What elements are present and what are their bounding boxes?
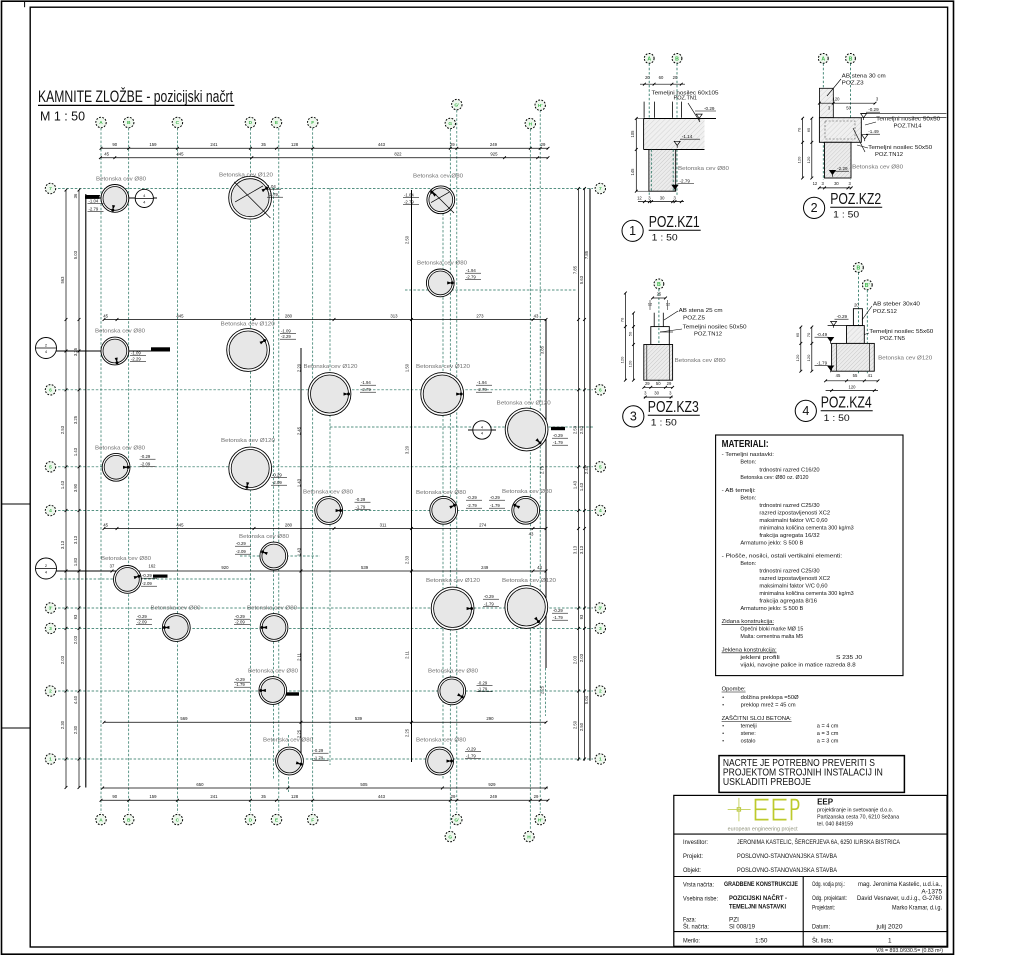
KZ3 title	[623, 399, 700, 429]
KZ4 axis bubble top	[854, 263, 864, 273]
svg-text:929: 929	[488, 782, 496, 787]
svg-text:A: A	[821, 56, 825, 62]
svg-text:7: 7	[599, 186, 602, 192]
svg-text:-2.09: -2.09	[141, 462, 151, 467]
svg-text:3: 3	[49, 626, 52, 632]
KZ4 axis dashed lines	[857, 273, 859, 374]
nosilec bar x157	[153, 575, 168, 578]
title block outer	[674, 795, 947, 946]
foundation wall left vertical	[85, 194, 87, 788]
svg-text:-1.79: -1.79	[553, 440, 563, 445]
svg-text:A: A	[647, 56, 651, 62]
svg-text:B: B	[127, 817, 131, 823]
svg-text:445: 445	[176, 152, 184, 157]
svg-text:ostalo: ostalo	[741, 739, 756, 745]
svg-text:249: 249	[490, 142, 498, 147]
svg-text:POZ.TN5: POZ.TN5	[880, 336, 905, 342]
svg-text:60: 60	[659, 75, 664, 80]
svg-text:Betonska cev Ø120: Betonska cev Ø120	[502, 578, 556, 584]
pipe E3 fi80	[234, 606, 297, 642]
svg-text:•: •	[722, 739, 724, 745]
KZ4 axis bubble B-prime	[862, 280, 872, 290]
KZ4 nosilec hatched	[847, 326, 865, 344]
svg-text:Št. lista:: Št. lista:	[812, 938, 833, 945]
svg-text:128: 128	[291, 794, 299, 799]
svg-text:2.30: 2.30	[73, 725, 78, 734]
svg-text:Betonska cev Ø80: Betonska cev Ø80	[678, 166, 729, 172]
svg-text:F: F	[311, 817, 314, 823]
svg-text:Betonska cev Ø80: Betonska cev Ø80	[96, 177, 146, 183]
KZ4 title	[795, 395, 873, 425]
svg-text:1 : 50: 1 : 50	[824, 413, 850, 424]
svg-text:2.53: 2.53	[573, 425, 578, 434]
svg-text:trdnostni razred C25/30: trdnostni razred C25/30	[759, 503, 819, 509]
KZ4 elevation -0.29	[831, 321, 837, 327]
svg-text:37: 37	[110, 564, 115, 569]
svg-text:Projektant:: Projektant:	[812, 905, 835, 912]
svg-text:Betonska cev Ø80: Betonska cev Ø80	[428, 669, 478, 675]
KZ3 wall stub	[653, 313, 655, 327]
svg-text:2.20: 2.20	[297, 363, 302, 372]
svg-text:-0.29: -0.29	[553, 433, 563, 438]
svg-text:3.25: 3.25	[73, 415, 78, 424]
svg-text:H: H	[529, 121, 533, 127]
svg-text:12: 12	[648, 302, 653, 307]
svg-text:1.50: 1.50	[405, 363, 410, 372]
svg-text:920: 920	[221, 565, 229, 570]
svg-text:-1.09: -1.09	[281, 329, 291, 334]
svg-text:-1.79: -1.79	[490, 503, 500, 508]
svg-text:159: 159	[149, 794, 157, 799]
svg-text:5.63: 5.63	[579, 275, 584, 284]
svg-text:650: 650	[196, 782, 204, 787]
KZ1 bottom dimension	[638, 201, 684, 203]
svg-text:-0.29: -0.29	[356, 497, 366, 502]
svg-text:505: 505	[360, 782, 368, 787]
svg-text:445: 445	[176, 522, 184, 527]
materiali box	[716, 435, 903, 676]
svg-text:Opečni bloki marke MØ 15: Opečni bloki marke MØ 15	[740, 627, 803, 633]
svg-text:1 : 50: 1 : 50	[651, 418, 677, 429]
pipe E2 fi80	[234, 669, 298, 705]
svg-text:90: 90	[112, 142, 117, 147]
svg-text:2.03: 2.03	[579, 653, 584, 662]
svg-text:-1.04: -1.04	[404, 193, 414, 198]
svg-text:-0.29: -0.29	[704, 106, 715, 111]
svg-text:-2.79: -2.79	[89, 207, 99, 212]
svg-text:35: 35	[261, 794, 266, 799]
top dimension row 2	[100, 157, 548, 159]
right dimension chain outer	[578, 189, 580, 761]
svg-text:-2.79: -2.79	[361, 387, 371, 392]
pipe D7 fi120	[219, 173, 283, 220]
svg-text:B: B	[657, 282, 661, 288]
svg-text:Betonska cev Ø80: Betonska cev Ø80	[95, 446, 145, 452]
KZ2 left dimension chains	[802, 118, 804, 178]
svg-text:Odg. projektant:: Odg. projektant:	[812, 895, 847, 902]
materiali content	[722, 452, 862, 669]
svg-text:1.43: 1.43	[579, 482, 584, 491]
svg-text:93: 93	[73, 614, 78, 619]
svg-text:a = 3 cm: a = 3 cm	[817, 739, 839, 745]
svg-text:50: 50	[628, 331, 633, 336]
svg-text:925: 925	[490, 152, 498, 157]
svg-text:3: 3	[599, 626, 602, 632]
svg-text:280: 280	[285, 522, 293, 527]
svg-text:PZI: PZI	[729, 917, 739, 924]
svg-text:trdnostni razred C16/20: trdnostni razred C16/20	[759, 468, 819, 474]
svg-text:F: F	[311, 120, 314, 126]
EEP company address	[817, 808, 899, 828]
svg-text:-2.79: -2.79	[680, 178, 691, 183]
svg-text:443: 443	[378, 142, 386, 147]
svg-text:20: 20	[854, 303, 859, 308]
svg-text:3.13: 3.13	[60, 540, 65, 549]
mid dimension row y722	[104, 721, 546, 723]
svg-text:C: C	[176, 817, 180, 823]
svg-text:12: 12	[637, 196, 642, 201]
svg-text:1.83: 1.83	[73, 557, 78, 566]
svg-text:1 : 50: 1 : 50	[833, 210, 859, 221]
svg-text:AB stena 30 cm: AB stena 30 cm	[842, 74, 887, 80]
svg-text:3.25: 3.25	[73, 347, 78, 356]
svg-text:B: B	[857, 265, 861, 271]
svg-text:-2.29: -2.29	[837, 166, 848, 171]
svg-text:2.03: 2.03	[60, 655, 65, 664]
svg-text:70: 70	[619, 317, 624, 322]
right dimension chain inner	[584, 189, 586, 761]
svg-text:razred izpostavljenosti XC2: razred izpostavljenosti XC2	[759, 511, 830, 517]
svg-text:-1.94: -1.94	[361, 380, 371, 385]
svg-text:B: B	[127, 120, 131, 126]
svg-text:-0.29: -0.29	[466, 747, 476, 752]
svg-text:274: 274	[479, 522, 487, 527]
svg-text:Projekt:: Projekt:	[683, 853, 703, 860]
foundation wall right vertical	[589, 189, 591, 761]
svg-text:1.43: 1.43	[297, 547, 302, 556]
svg-text:G': G'	[454, 102, 459, 108]
svg-text:POSLOVNO-STANOVANJSKA STAVBA: POSLOVNO-STANOVANJSKA STAVBA	[737, 853, 838, 860]
nosilec bar row7	[85, 195, 100, 199]
svg-text:Marko Kramar, d.i.g.: Marko Kramar, d.i.g.	[892, 905, 942, 912]
pipe F7 fi80	[403, 174, 463, 214]
svg-text:Objekt:: Objekt:	[683, 867, 701, 874]
plan vertical grid line H-prime	[539, 110, 541, 813]
svg-text:-0.29: -0.29	[137, 614, 147, 619]
foundation wall vertical x546	[545, 320, 547, 669]
svg-text:313: 313	[390, 313, 398, 318]
svg-text:G: G	[448, 121, 452, 127]
zascitni sloj betona block	[722, 715, 839, 745]
title block row dividers	[674, 833, 947, 835]
svg-text:-1.79: -1.79	[817, 361, 828, 366]
svg-text:H: H	[527, 834, 531, 840]
svg-text:2.30: 2.30	[60, 720, 65, 729]
plan vertical helper grid lines	[274, 188, 444, 780]
pipe F6 fi120	[304, 364, 377, 415]
svg-text:D: D	[249, 120, 253, 126]
detail POZ.KZ2	[797, 54, 947, 221]
svg-text:Betonska cev Ø80: Betonska cev Ø80	[303, 490, 353, 496]
svg-text:-1.09: -1.09	[131, 351, 141, 356]
KZ3 bottom dims	[644, 386, 673, 388]
section mark near circle H mid	[468, 421, 496, 439]
interior vertical dimension numbers x590	[584, 250, 589, 704]
svg-text:120: 120	[795, 354, 800, 361]
svg-text:241: 241	[210, 142, 218, 147]
svg-text:3.13: 3.13	[573, 545, 578, 554]
svg-text:-1.94: -1.94	[477, 380, 487, 385]
KZ2 slab hatched	[819, 118, 861, 143]
svg-text:2.53: 2.53	[579, 425, 584, 434]
svg-text:- AB temelji:: - AB temelji:	[722, 488, 757, 494]
pipe E556 fi80	[235, 534, 289, 570]
svg-text:USKLADITI PREBOJE: USKLADITI PREBOJE	[723, 777, 811, 788]
svg-text:-1.94: -1.94	[466, 268, 476, 273]
svg-text:35: 35	[261, 142, 266, 147]
plan horizontal grid lines	[58, 189, 593, 760]
svg-text:2.03: 2.03	[573, 655, 578, 664]
KZ2 top surface leader lines	[861, 113, 946, 115]
svg-text:2.11: 2.11	[297, 652, 302, 661]
svg-text:Betonska cev Ø80: Betonska cev Ø80	[413, 174, 463, 180]
svg-text:7: 7	[49, 186, 52, 192]
svg-text:POZ.KZ3: POZ.KZ3	[648, 399, 699, 416]
svg-text:280: 280	[285, 313, 293, 318]
svg-text:D: D	[249, 817, 253, 823]
svg-text:3: 3	[630, 410, 637, 424]
KZ2 title	[804, 191, 883, 221]
svg-text:3.20: 3.20	[405, 445, 410, 454]
svg-text:45: 45	[103, 522, 108, 527]
svg-text:-0.29: -0.29	[478, 681, 488, 686]
svg-text:julij 2020: julij 2020	[875, 924, 902, 931]
svg-text:vijaki, navojne palice in mati: vijaki, navojne palice in matice razreda…	[740, 663, 855, 669]
svg-text:7.85: 7.85	[584, 250, 589, 259]
svg-text:Beton:: Beton:	[740, 496, 756, 502]
svg-text:-0.29: -0.29	[484, 594, 494, 599]
svg-text:Temeljni nosilec 50x50: Temeljni nosilec 50x50	[683, 325, 747, 331]
KZ1 axis bubble A	[644, 54, 654, 64]
svg-text:-2.09: -2.09	[236, 549, 246, 554]
svg-text:-1.49: -1.49	[868, 129, 879, 134]
svg-text:2.75: 2.75	[540, 465, 545, 474]
svg-text:2.50: 2.50	[579, 722, 584, 731]
svg-text:30: 30	[660, 196, 665, 201]
svg-text:A: A	[99, 120, 103, 126]
pipe G290 fi80	[417, 261, 481, 297]
plan horizontal helper grid lines	[60, 290, 593, 792]
svg-text:Vrsta načrta:: Vrsta načrta:	[683, 882, 714, 889]
nosilec bar row mid right	[551, 427, 565, 430]
left chain dimension numbers	[60, 193, 78, 734]
svg-text:36: 36	[73, 193, 78, 198]
svg-text:1:50: 1:50	[755, 938, 768, 945]
pipe Dsec fi120	[221, 322, 296, 372]
plan vertical grid line H	[529, 129, 531, 830]
svg-text:Malta: cementna malta M5: Malta: cementna malta M5	[740, 634, 803, 640]
svg-text:minimalna količina cementa 300: minimalna količina cementa 300 kg/m3	[759, 591, 853, 597]
KZ1 top dimension	[640, 83, 685, 85]
svg-text:29: 29	[450, 142, 455, 147]
pipe F4 fi80	[303, 490, 371, 525]
svg-text:Betonska cev Ø120: Betonska cev Ø120	[878, 356, 932, 362]
KZ2 elevation -1.49	[862, 135, 868, 141]
svg-text:12: 12	[813, 181, 818, 186]
svg-text:241: 241	[210, 794, 218, 799]
svg-text:Betonska cev Ø120: Betonska cev Ø120	[221, 322, 275, 328]
svg-text:70: 70	[797, 127, 802, 132]
svg-text:Vsebina risbe:: Vsebina risbe:	[683, 896, 718, 903]
svg-text:Betonska cev Ø80: Betonska cev Ø80	[151, 606, 201, 612]
svg-text:5: 5	[599, 465, 602, 471]
pipe E1 fi80	[263, 738, 329, 775]
svg-text:-0.29: -0.29	[142, 573, 152, 578]
svg-text:3.85: 3.85	[540, 345, 545, 354]
KZ4 pipe fi120	[832, 343, 875, 371]
svg-text:-2.09: -2.09	[272, 480, 282, 485]
svg-text:43: 43	[534, 313, 539, 318]
pipe D5 fi120	[221, 438, 287, 490]
svg-text:SI 008/19: SI 008/19	[729, 924, 755, 931]
svg-text:3.90: 3.90	[73, 483, 78, 492]
svg-text:H': H'	[538, 103, 543, 109]
KZ3 left dimension chains	[624, 293, 626, 380]
svg-text:2.33: 2.33	[405, 555, 410, 564]
svg-text:Betonska cev Ø80: Betonska cev Ø80	[502, 489, 552, 495]
svg-text:-2.79: -2.79	[466, 275, 476, 280]
svg-text:mag. Jeronima Kastelic, u.d.i.: mag. Jeronima Kastelic, u.d.i.a.,	[858, 881, 942, 888]
svg-text:Betonska cev Ø80: Betonska cev Ø80	[675, 358, 726, 364]
svg-text:preklop mrež = 45 cm: preklop mrež = 45 cm	[741, 703, 796, 709]
svg-text:159: 159	[149, 142, 157, 147]
svg-text:43: 43	[529, 532, 534, 537]
svg-text:2.45: 2.45	[297, 426, 302, 435]
svg-text:120: 120	[849, 384, 857, 389]
KZ3 axis dashed line	[658, 289, 660, 381]
svg-text:Beton:: Beton:	[740, 561, 756, 567]
svg-text:Betonska cev Ø80: Betonska cev Ø80	[417, 261, 467, 267]
svg-text:7.85: 7.85	[573, 265, 578, 274]
svg-text:50: 50	[846, 106, 851, 111]
right chain dimension numbers	[573, 265, 585, 731]
axis bubbles left	[45, 183, 55, 764]
title block merilo row	[683, 938, 892, 945]
svg-text:162: 162	[149, 564, 157, 569]
svg-text:-0.29: -0.29	[235, 614, 245, 619]
svg-text:POZICIJSKI NAČRT -: POZICIJSKI NAČRT -	[729, 893, 787, 902]
pipe B5 fi80	[95, 446, 156, 482]
fold mark left lower	[2, 727, 31, 729]
KZ3 axis bubble B	[654, 279, 664, 289]
KZ1 elevation -0.29	[696, 114, 702, 120]
svg-text:2: 2	[811, 201, 818, 215]
svg-text:443: 443	[378, 794, 386, 799]
opombe block	[722, 687, 800, 709]
svg-text:-0.29: -0.29	[314, 748, 324, 753]
svg-text:5.04: 5.04	[584, 695, 589, 704]
pipe B579 fi80	[101, 556, 157, 593]
svg-text:a = 4 cm: a = 4 cm	[817, 724, 839, 730]
KZ2 wall above	[819, 88, 833, 117]
KZ1 pipe below slab	[649, 150, 676, 192]
svg-text:-1.79: -1.79	[235, 682, 245, 687]
svg-text:Betonska cev: Ø80 oz. Ø120: Betonska cev: Ø80 oz. Ø120	[740, 475, 808, 481]
svg-text:1: 1	[49, 757, 52, 763]
pipe G4 fi80	[416, 490, 482, 524]
svg-text:JERONIMA KASTELIC, ŠERCERJEVA: JERONIMA KASTELIC, ŠERCERJEVA 6A, 6250 I…	[737, 837, 900, 846]
svg-text:45: 45	[104, 152, 109, 157]
pipe Bsec fi80	[95, 329, 146, 365]
svg-text:120: 120	[628, 360, 633, 367]
KZ2 elevation -0.29	[861, 114, 867, 120]
svg-text:822: 822	[394, 152, 402, 157]
section mark row7 right of B	[86, 189, 157, 207]
svg-text:Datum:: Datum:	[812, 924, 830, 931]
svg-text:temelji: temelji	[741, 724, 757, 730]
svg-text:-2.79: -2.79	[477, 387, 487, 392]
svg-text:stene:: stene:	[741, 731, 757, 737]
svg-text:minimalna količina cementa 300: minimalna količina cementa 300 kg/m3	[759, 526, 853, 532]
detail POZ.KZ4	[795, 263, 934, 424]
svg-text:539: 539	[355, 716, 363, 721]
KZ2 dim 120	[819, 102, 875, 104]
svg-text:Temeljni nosilec 55x60: Temeljni nosilec 55x60	[869, 329, 933, 335]
svg-text:a = 3 cm: a = 3 cm	[817, 731, 839, 737]
svg-text:249: 249	[481, 565, 489, 570]
axis bubbles top	[96, 99, 546, 128]
section mark 2-4 left margin	[36, 338, 171, 359]
pipe H4 fi80	[489, 489, 552, 524]
foundation wall vertical x411	[411, 190, 413, 762]
KZ1 axis dashed lines	[648, 64, 650, 197]
pipe H3p fi120	[502, 578, 568, 628]
svg-text:2.25: 2.25	[405, 728, 410, 737]
KZ1 elevation -1.14	[674, 141, 680, 147]
KZ3 pipe	[644, 345, 673, 381]
axis bubbles right	[595, 183, 605, 764]
svg-text:POZ.S12: POZ.S12	[873, 309, 897, 315]
foundation wall top edge	[86, 194, 100, 196]
svg-text:POZ.TN14: POZ.TN14	[894, 124, 922, 130]
svg-text:-1.79: -1.79	[553, 615, 563, 620]
title block drawing info right	[812, 881, 942, 931]
svg-text:-0.49: -0.49	[817, 332, 828, 337]
svg-text:-0.29: -0.29	[553, 608, 563, 613]
note box nacrte je potrebno	[719, 756, 904, 793]
svg-text:POZ.TN12: POZ.TN12	[694, 332, 722, 338]
svg-text:2.45: 2.45	[584, 465, 589, 474]
svg-text:1.43: 1.43	[60, 480, 65, 489]
left dimension chain inner	[78, 190, 80, 788]
KZ1 axis bubble B	[672, 54, 682, 64]
svg-text:-2.29: -2.29	[281, 334, 291, 339]
svg-text:120: 120	[833, 97, 841, 102]
svg-text:29: 29	[534, 794, 539, 799]
svg-text:V/š = 893.0/930.5= (0.83 m²): V/š = 893.0/930.5= (0.83 m²)	[876, 948, 943, 954]
svg-text:AB stena 25 cm: AB stena 25 cm	[679, 308, 724, 314]
svg-text:POZ.KZ2: POZ.KZ2	[830, 191, 881, 208]
svg-text:razred izpostavljenosti XC2: razred izpostavljenosti XC2	[759, 576, 830, 582]
svg-text:4: 4	[599, 508, 602, 514]
svg-text:C: C	[176, 120, 180, 126]
svg-text:Betonska cev Ø120: Betonska cev Ø120	[416, 364, 470, 370]
svg-text:POZ.Z5: POZ.Z5	[683, 316, 705, 322]
svg-text:-2.79: -2.79	[467, 503, 477, 508]
svg-text:120: 120	[619, 356, 624, 363]
svg-text:-0.29: -0.29	[141, 454, 151, 459]
svg-text:MATERIALI:: MATERIALI:	[722, 438, 769, 450]
